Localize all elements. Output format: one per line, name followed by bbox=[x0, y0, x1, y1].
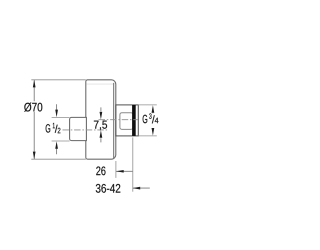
dim Ø70 extension line bottom bbox=[31, 158, 86, 160]
dim 26 extension line left bbox=[115, 161, 117, 178]
dim G1/2 arrow down bbox=[55, 110, 58, 118]
dim Ø70 label bbox=[24, 103, 42, 112]
dim G3/4 extension line top bbox=[138, 104, 157, 106]
right outlet axis (dash-dot) bbox=[99, 119, 138, 121]
dim G3/4 label bbox=[143, 113, 159, 123]
dim Ø70 extension line top bbox=[31, 79, 86, 81]
left inlet axis (dash-dot) bbox=[63, 129, 109, 131]
dim Ø70 dimension line bbox=[33, 80, 35, 159]
dim G3/4 arrow down bbox=[152, 128, 155, 136]
G1/2 inlet nipple bbox=[70, 117, 87, 140]
dim G1/2 label bbox=[46, 123, 61, 133]
dim G3/4 arrow up bbox=[152, 105, 155, 113]
dim 36-42 extension line right (long) bbox=[132, 137, 134, 191]
dim 7,5 dimension line bbox=[100, 107, 102, 142]
dim 7,5 arrow up bbox=[100, 130, 103, 138]
dim G1/2 extension line top bbox=[52, 116, 70, 118]
dim G3/4 dimension line bbox=[152, 111, 154, 131]
dim G1/2 arrow up bbox=[55, 141, 58, 149]
wall flange (escutcheon Ø70, side view) bbox=[86, 80, 116, 159]
dim G3/4 extension line bottom bbox=[138, 135, 157, 137]
flange face highlight line bbox=[87, 83, 114, 85]
dim 26 dimension line bbox=[116, 170, 133, 172]
dim 7,5 label bbox=[94, 121, 107, 130]
dim 7,5 arrow down bbox=[100, 112, 103, 120]
dim 26 arrow left bbox=[116, 170, 124, 173]
dim 36-42 label bbox=[96, 184, 121, 193]
dim G1/2 extension line bottom bbox=[52, 140, 70, 142]
union nut knurled band bbox=[132, 105, 136, 136]
dim 36-42 dimension line bbox=[133, 187, 150, 189]
dim Ø70 arrow up bbox=[33, 80, 36, 88]
dim G1/2 dimension line bbox=[56, 104, 58, 154]
dim 26 label bbox=[96, 166, 105, 175]
dim 36-42 arrow left bbox=[133, 187, 141, 190]
flange rim back edge bbox=[113, 83, 115, 158]
body collar detail bbox=[120, 113, 133, 130]
dim Ø70 arrow down bbox=[33, 152, 36, 160]
union body outline bbox=[116, 105, 139, 136]
